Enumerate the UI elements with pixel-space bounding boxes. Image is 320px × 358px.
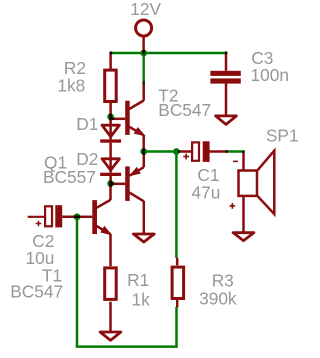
junction R2 / D1 / T2 base [107, 113, 114, 120]
svg-text:47u: 47u [192, 182, 221, 202]
capacitor C2 [36, 205, 79, 227]
svg-text:BC557: BC557 [43, 167, 96, 187]
svg-text:BC547: BC547 [10, 281, 63, 301]
svg-text:390k: 390k [199, 289, 237, 309]
ground under R1 [100, 332, 121, 340]
wire output node [144, 150, 179, 153]
speaker SP1 [230, 151, 275, 233]
wire input to C2 [28, 216, 44, 218]
svg-text:R1: R1 [127, 270, 149, 290]
junction C2 / T1 base / feedback [74, 213, 81, 220]
ground under SP1 [233, 233, 254, 241]
wire C1 to SP1 [227, 150, 244, 153]
svg-text:SP1: SP1 [266, 125, 299, 145]
wire feedback down from T1 base [76, 217, 79, 347]
diode D1 [100, 117, 121, 158]
capacitor C1 [179, 141, 227, 162]
transistor T2 [111, 85, 144, 151]
resistor R3 [172, 258, 184, 308]
transistor T1 [78, 184, 111, 267]
diode D2 [100, 158, 121, 184]
svg-text:100n: 100n [251, 65, 289, 85]
svg-text:R3: R3 [212, 270, 234, 290]
wire T2 collector to rail [143, 53, 145, 85]
wire R3 bottom to feedback [175, 307, 178, 347]
wire output to R3 top [175, 152, 178, 259]
svg-text:1k: 1k [132, 289, 151, 309]
svg-text:10u: 10u [26, 248, 55, 268]
resistor R2 [105, 53, 117, 117]
resistor R1 [105, 268, 117, 332]
supply symbol 12V [136, 20, 152, 53]
wire feedback bottom [76, 345, 178, 348]
junction output emitters [140, 148, 147, 155]
junction D2 / Q1 base / T1 collector [107, 180, 114, 187]
junction top rail / T2 collector [140, 50, 147, 57]
transistor Q1 [111, 153, 144, 234]
svg-text:1k8: 1k8 [57, 75, 85, 95]
svg-text:D1: D1 [76, 114, 98, 134]
ground under C3 [216, 116, 237, 125]
svg-text:12V: 12V [130, 0, 161, 19]
ground under Q1 collector [133, 234, 154, 242]
capacitor C3 [210, 54, 240, 116]
svg-text:BC547: BC547 [158, 100, 211, 120]
joint marks [74, 50, 245, 218]
wire top 12V rail [110, 52, 226, 54]
junction output / R3 [173, 148, 180, 155]
